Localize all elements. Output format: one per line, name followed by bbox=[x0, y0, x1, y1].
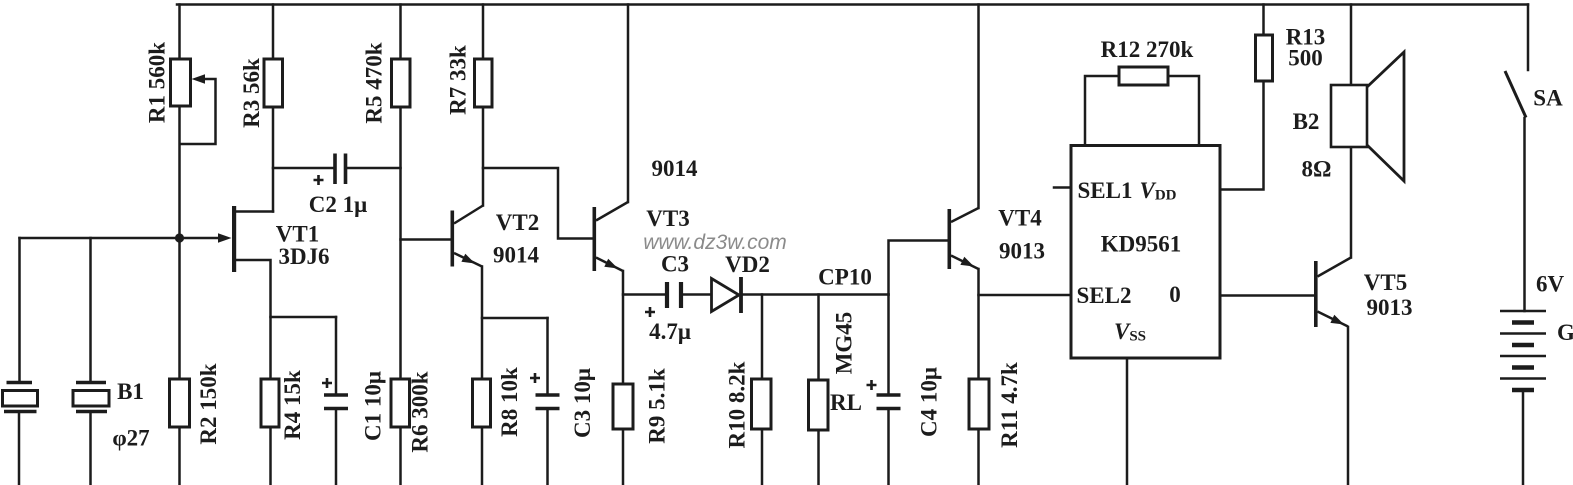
wire R1 wiper feedback bbox=[181, 79, 216, 144]
wire R11 bottom to edge bbox=[977, 429, 980, 484]
battery G short thick plates bbox=[1512, 323, 1534, 391]
wire R3 bottom to VT1 drain bbox=[272, 107, 275, 212]
wire R1 top to rail bbox=[178, 5, 181, 60]
transistor VT1 gate arrowhead bbox=[218, 233, 232, 243]
resistor R13 bbox=[1256, 35, 1273, 81]
capacitor C3 series plates bbox=[667, 282, 681, 308]
transistor VT3 emitter arrowhead bbox=[604, 259, 618, 269]
resistor R8 bbox=[473, 379, 491, 427]
wire C3 series to VD2 bbox=[684, 293, 712, 296]
svg-text:SA: SA bbox=[1533, 86, 1563, 111]
svg-text:SEL1: SEL1 bbox=[1078, 178, 1133, 203]
svg-text:KD9561: KD9561 bbox=[1101, 232, 1182, 257]
wire R12 left leg bbox=[1085, 76, 1119, 146]
wire R3 top to rail bbox=[272, 5, 275, 60]
resistor R1 (potentiometer body) bbox=[171, 59, 191, 106]
svg-text:9013: 9013 bbox=[999, 239, 1045, 264]
transistor VT4 base bar bbox=[948, 209, 952, 269]
capacitor C1 plus sign bbox=[322, 378, 332, 388]
svg-text:VT1: VT1 bbox=[276, 222, 319, 247]
wire 0 pin to VT5 base bbox=[1220, 294, 1314, 297]
piezo disc 2 (B1) body bbox=[73, 391, 109, 407]
resistor R6 bbox=[391, 379, 410, 427]
wire C1 bottom to edge bbox=[335, 409, 338, 485]
photoresistor RL body bbox=[809, 380, 829, 430]
wire R5 top to rail bbox=[399, 5, 402, 60]
transistor VT5 emitter arrowhead bbox=[1330, 315, 1344, 325]
transistor VT3 emitter lead bbox=[596, 258, 623, 272]
wire R7 bottom to VT2 collector bbox=[482, 107, 485, 206]
svg-text:B1: B1 bbox=[117, 379, 144, 404]
svg-text:MG45: MG45 bbox=[832, 312, 857, 375]
resistor R1 wiper arrowhead bbox=[192, 74, 206, 84]
svg-text:C2 1μ: C2 1μ bbox=[309, 192, 367, 217]
diode VD2 triangle bbox=[712, 279, 740, 312]
wire rail down to switch SA bbox=[1527, 5, 1530, 71]
resistor R10 bbox=[752, 379, 772, 429]
wire RL top drop bbox=[817, 295, 820, 381]
svg-text:R1 560k: R1 560k bbox=[145, 42, 170, 123]
svg-text:C3 10μ: C3 10μ bbox=[570, 368, 595, 438]
resistor R4 bbox=[261, 379, 279, 427]
battery G long plates bbox=[1500, 311, 1546, 379]
piezo disc 2 (B1) bottom electrode bbox=[76, 410, 107, 414]
svg-text:B2: B2 bbox=[1293, 109, 1320, 134]
wire switch to battery bbox=[1523, 118, 1526, 311]
svg-text:R7 33k: R7 33k bbox=[446, 45, 471, 115]
wire R13 top to rail bbox=[1262, 5, 1265, 36]
svg-text:R3 56k: R3 56k bbox=[239, 58, 264, 128]
wire piezo 2 bottom to edge bbox=[89, 414, 92, 485]
transistor VT3 base bar bbox=[593, 207, 597, 271]
svg-text:0: 0 bbox=[1169, 282, 1181, 307]
diode VD2 cathode bar bbox=[739, 277, 743, 313]
transistor VT4 emitter arrowhead bbox=[960, 257, 974, 267]
wire VD2 to C4 junction (CP10) bbox=[743, 293, 889, 296]
svg-text:C1 10μ: C1 10μ bbox=[361, 371, 386, 441]
capacitor C2 plus sign bbox=[314, 175, 324, 185]
wire C4 bottom to edge bbox=[887, 409, 890, 485]
capacitor C3 shunt plus sign bbox=[530, 373, 540, 383]
wire R12 right leg bbox=[1168, 76, 1199, 146]
svg-text:VT2: VT2 bbox=[496, 210, 539, 235]
wire battery bottom to edge bbox=[1522, 390, 1525, 484]
transistor VT4 emitter lead bbox=[951, 256, 979, 270]
wire piezo 2 top drop bbox=[89, 238, 92, 381]
svg-text:R4 15k: R4 15k bbox=[280, 370, 305, 440]
resistor R5 bbox=[392, 59, 411, 107]
wire C2 right to R5 line bbox=[348, 167, 401, 170]
svg-text:C3: C3 bbox=[661, 252, 689, 277]
transistor VT2 base bar bbox=[451, 211, 455, 267]
wire R10 bottom to edge bbox=[761, 429, 764, 484]
capacitor C4 plus sign bbox=[867, 380, 877, 390]
wire VT2 base lead bbox=[401, 238, 451, 241]
wire R10 top drop bbox=[761, 295, 764, 380]
svg-text:φ27: φ27 bbox=[112, 426, 149, 451]
speaker B2 cone bbox=[1367, 52, 1404, 181]
resistor R11 bbox=[969, 379, 989, 429]
svg-text:4.7μ: 4.7μ bbox=[649, 319, 691, 344]
wire VT3 emitter down to R9 bbox=[622, 271, 625, 384]
svg-text:R5 470k: R5 470k bbox=[362, 42, 387, 123]
wire R1 bottom through gate node down to R2 bbox=[178, 106, 181, 379]
svg-text:R12 270k: R12 270k bbox=[1101, 37, 1194, 62]
wire top supply rail bbox=[177, 3, 1528, 6]
svg-text:VT4: VT4 bbox=[998, 206, 1042, 231]
wire R4 top bbox=[269, 317, 272, 379]
resistor R12 body bbox=[1119, 67, 1168, 85]
wire VT1 source lead to R4 and C1 bbox=[236, 260, 336, 317]
wire VT2 emitter junction to C3 shunt bbox=[482, 317, 548, 320]
capacitor C4 plates bbox=[877, 395, 901, 409]
transistor VT5 base bar bbox=[1314, 261, 1318, 327]
svg-text:R10 8.2k: R10 8.2k bbox=[725, 361, 750, 448]
node A gate junction dot bbox=[175, 233, 184, 242]
transistor VT1 JFET channel bar bbox=[232, 206, 236, 272]
wire VDD pin to R13 bbox=[1220, 81, 1264, 190]
svg-text:G: G bbox=[1557, 320, 1573, 345]
svg-text:R2 150k: R2 150k bbox=[196, 363, 221, 444]
transistor VT5 emitter lead bbox=[1318, 312, 1349, 327]
wire C3 shunt bottom to edge bbox=[546, 409, 549, 485]
wire piezo 1 top drop bbox=[18, 238, 21, 381]
resistor R9 bbox=[613, 384, 633, 429]
svg-text:9013: 9013 bbox=[1367, 295, 1413, 320]
svg-text:RL: RL bbox=[830, 390, 862, 415]
piezo disc 1 bottom electrode bbox=[4, 410, 37, 414]
wire CP10 junction up to VT4 base bbox=[889, 241, 948, 295]
wire VT1 drain lead bbox=[236, 210, 273, 213]
speaker B2 magnet box bbox=[1331, 85, 1367, 147]
svg-text:C4 10μ: C4 10μ bbox=[917, 367, 942, 437]
svg-text:SEL2: SEL2 bbox=[1077, 283, 1132, 308]
svg-text:R11 4.7k: R11 4.7k bbox=[997, 362, 1022, 448]
svg-text:500: 500 bbox=[1288, 46, 1323, 71]
switch SA blade bbox=[1505, 71, 1526, 118]
svg-text:3DJ6: 3DJ6 bbox=[278, 244, 329, 269]
svg-text:R9 5.1k: R9 5.1k bbox=[645, 368, 670, 444]
wire VT4 emitter down through junction to R11 bbox=[977, 269, 980, 379]
wire gate node horizontal bbox=[20, 237, 222, 240]
svg-text:VT5: VT5 bbox=[1364, 270, 1407, 295]
wire RL bottom to edge bbox=[817, 430, 820, 484]
wire piezo 1 bottom to edge bbox=[18, 414, 21, 485]
wire VT2 emitter down through junction to R8 bbox=[481, 267, 484, 380]
wire VT3 collector to rail bbox=[627, 5, 630, 203]
wire VT3 emitter junction to C3 series bbox=[623, 293, 665, 296]
transistor VT2 collector lead bbox=[454, 206, 483, 224]
wire speaker top bbox=[1350, 5, 1353, 86]
resistor R7 bbox=[475, 59, 493, 107]
svg-text:VD2: VD2 bbox=[725, 252, 770, 277]
svg-text:R6 300k: R6 300k bbox=[408, 371, 433, 452]
svg-text:www.dz3w.com: www.dz3w.com bbox=[643, 231, 787, 254]
transistor VT2 emitter arrowhead bbox=[461, 254, 475, 264]
wire C3 shunt top bbox=[546, 318, 549, 395]
piezo disc 1 body bbox=[3, 391, 38, 407]
piezo disc 1 top electrode bbox=[7, 381, 33, 385]
svg-text:8Ω: 8Ω bbox=[1302, 157, 1332, 182]
wire VT2 collector to VT3 base bbox=[483, 168, 593, 239]
wire C2 left bbox=[273, 167, 333, 170]
wire VSS pin to edge bbox=[1126, 358, 1129, 484]
IC U1 KD9561 box bbox=[1071, 146, 1220, 359]
wire C4 top bbox=[887, 295, 890, 396]
svg-text:6V: 6V bbox=[1536, 272, 1565, 297]
wire R4 bottom to edge bbox=[269, 427, 272, 484]
wire R7 top to rail bbox=[482, 5, 485, 60]
wire SEL1 stub bbox=[1054, 186, 1071, 189]
transistor VT4 collector lead bbox=[951, 208, 979, 222]
wire VT5 emitter to edge bbox=[1347, 327, 1350, 484]
wire R8 bottom to edge bbox=[481, 427, 484, 484]
wire R2 bottom to edge bbox=[178, 427, 181, 484]
resistor R3 bbox=[264, 59, 283, 107]
wire R6 bottom to edge bbox=[399, 427, 402, 484]
svg-text:9014: 9014 bbox=[493, 243, 540, 268]
wire VT4 collector to rail bbox=[977, 5, 980, 209]
capacitor C2 plates bbox=[335, 154, 346, 185]
capacitor C1 plates bbox=[324, 395, 348, 409]
resistor R2 bbox=[170, 379, 190, 427]
capacitor C3 series plus sign bbox=[645, 307, 655, 317]
wire R5 bottom down to R6 top (VT2 base line) bbox=[399, 107, 402, 379]
wire R9 bottom to edge bbox=[622, 429, 625, 484]
wire VT4 emitter to SEL2 pin bbox=[979, 294, 1072, 297]
svg-text:CP10: CP10 bbox=[818, 265, 872, 290]
transistor VT3 collector lead bbox=[596, 202, 628, 221]
capacitor C3 shunt plates bbox=[536, 395, 560, 409]
piezo disc 2 (B1) top electrode bbox=[76, 381, 106, 385]
transistor VT2 emitter lead bbox=[454, 253, 482, 267]
transistor VT5 collector lead bbox=[1318, 258, 1352, 277]
svg-text:VT3: VT3 bbox=[646, 206, 689, 231]
svg-text:R8 10k: R8 10k bbox=[497, 367, 522, 437]
svg-text:9014: 9014 bbox=[652, 156, 699, 181]
wire speaker bottom to VT5 collector bbox=[1350, 147, 1353, 258]
wire C1 top bbox=[335, 317, 338, 395]
